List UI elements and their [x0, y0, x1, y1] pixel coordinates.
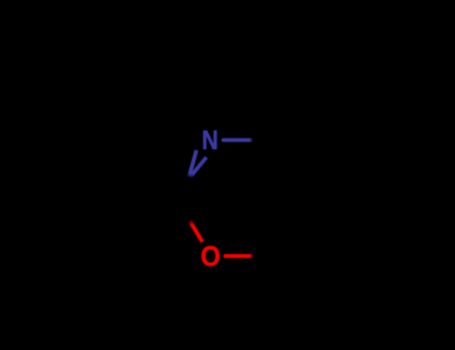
bond C=N main line (blue half) [189, 150, 197, 177]
atom label N [203, 131, 216, 149]
bond C=N inner line (blue, converging) [190, 157, 206, 177]
bond N-C methyl (blue half, fades to black carbon) [221, 138, 253, 142]
atom label O [202, 246, 220, 266]
bond C-O (red half, fades to black carbon at top) [189, 220, 202, 242]
bond O-C methyl (red half, fades to black carbon) [223, 254, 254, 258]
